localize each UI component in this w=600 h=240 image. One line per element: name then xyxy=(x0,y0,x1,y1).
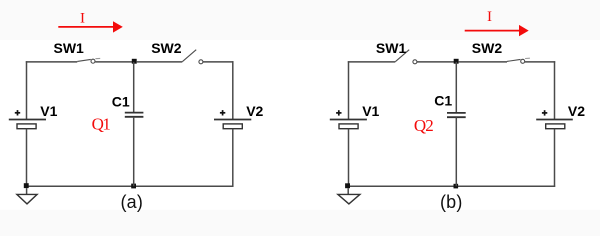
plus sign V2 (b) xyxy=(542,110,547,115)
wire (b) left vertical upper xyxy=(348,61,350,119)
svg-text:C1: C1 xyxy=(434,93,452,109)
battery V1 (a) xyxy=(9,120,46,129)
ground junction (b) xyxy=(345,183,350,188)
junction (a) bottom of C1 branch xyxy=(131,184,136,189)
wire (b) top-left horizontal xyxy=(348,61,396,63)
wire (a) SW1 to node A xyxy=(95,61,134,63)
wire (b) bottom horizontal xyxy=(347,185,555,187)
wire (b) left vertical lower xyxy=(348,129,350,187)
node A junction (a) top of C1 xyxy=(132,59,137,64)
wire (b) C1 bottom lead xyxy=(455,117,457,186)
svg-text:V1: V1 xyxy=(40,103,57,119)
switch SW2 (b) closed xyxy=(507,58,530,63)
wire (b) right vertical upper xyxy=(554,61,556,119)
wire (b) SW1 to node B xyxy=(417,61,456,63)
wire (a) SW2 to top-right corner xyxy=(203,61,234,63)
svg-text:SW1: SW1 xyxy=(376,40,407,56)
capacitor C1 (b) xyxy=(447,113,466,117)
junction (b) bottom of C1 branch xyxy=(454,184,459,189)
wire (a) node A to SW2 xyxy=(137,61,183,63)
wire (a) left vertical lower xyxy=(26,129,28,187)
svg-text:V1: V1 xyxy=(362,103,379,119)
current arrow I (a) xyxy=(58,21,123,32)
svg-text:Q2: Q2 xyxy=(414,116,434,135)
wire (b) SW2 to top-right corner xyxy=(525,61,555,63)
wire (a) C1 top lead xyxy=(133,62,135,113)
battery V1 (b) xyxy=(330,120,367,129)
battery V2 (b) xyxy=(536,120,573,129)
plus sign V1 (b) xyxy=(336,110,341,115)
plus sign V1 (a) xyxy=(15,110,20,115)
ground junction (a) xyxy=(24,183,29,188)
svg-text:V2: V2 xyxy=(568,103,585,119)
current arrow I (b) xyxy=(465,25,529,36)
switch SW2 (a) open xyxy=(182,50,203,64)
ground symbol (a) xyxy=(17,194,37,204)
wire (b) C1 top lead xyxy=(455,62,457,113)
svg-text:(b): (b) xyxy=(440,192,463,212)
wire (b) node B to SW2 xyxy=(459,61,507,63)
wire (a) C1 bottom lead xyxy=(133,117,135,186)
svg-text:SW2: SW2 xyxy=(151,40,182,56)
node B junction (b) top of C1 xyxy=(454,59,459,64)
svg-text:I: I xyxy=(80,11,85,27)
svg-text:SW2: SW2 xyxy=(472,40,503,56)
ground stem (b) xyxy=(347,188,349,194)
plus sign V2 (a) xyxy=(220,110,225,115)
ground stem (a) xyxy=(26,188,28,195)
wire (a) right vertical upper xyxy=(232,61,234,119)
svg-text:(a): (a) xyxy=(120,192,143,212)
switch SW1 (a) closed xyxy=(77,58,100,63)
wire (a) top-left horizontal xyxy=(26,61,78,63)
svg-text:C1: C1 xyxy=(112,93,130,109)
wire (a) left vertical upper xyxy=(26,61,28,119)
wire (b) right vertical lower xyxy=(554,129,556,187)
svg-text:Q1: Q1 xyxy=(92,115,111,134)
wire (a) bottom horizontal xyxy=(26,185,234,187)
battery V2 (a) xyxy=(214,120,251,129)
svg-text:I: I xyxy=(487,9,492,25)
wire (a) right vertical lower xyxy=(232,129,234,187)
svg-text:V2: V2 xyxy=(246,103,263,119)
capacitor C1 (a) xyxy=(125,113,144,117)
svg-text:SW1: SW1 xyxy=(54,40,85,56)
switch SW1 (b) open xyxy=(395,50,417,64)
ground symbol (b) xyxy=(338,194,360,204)
